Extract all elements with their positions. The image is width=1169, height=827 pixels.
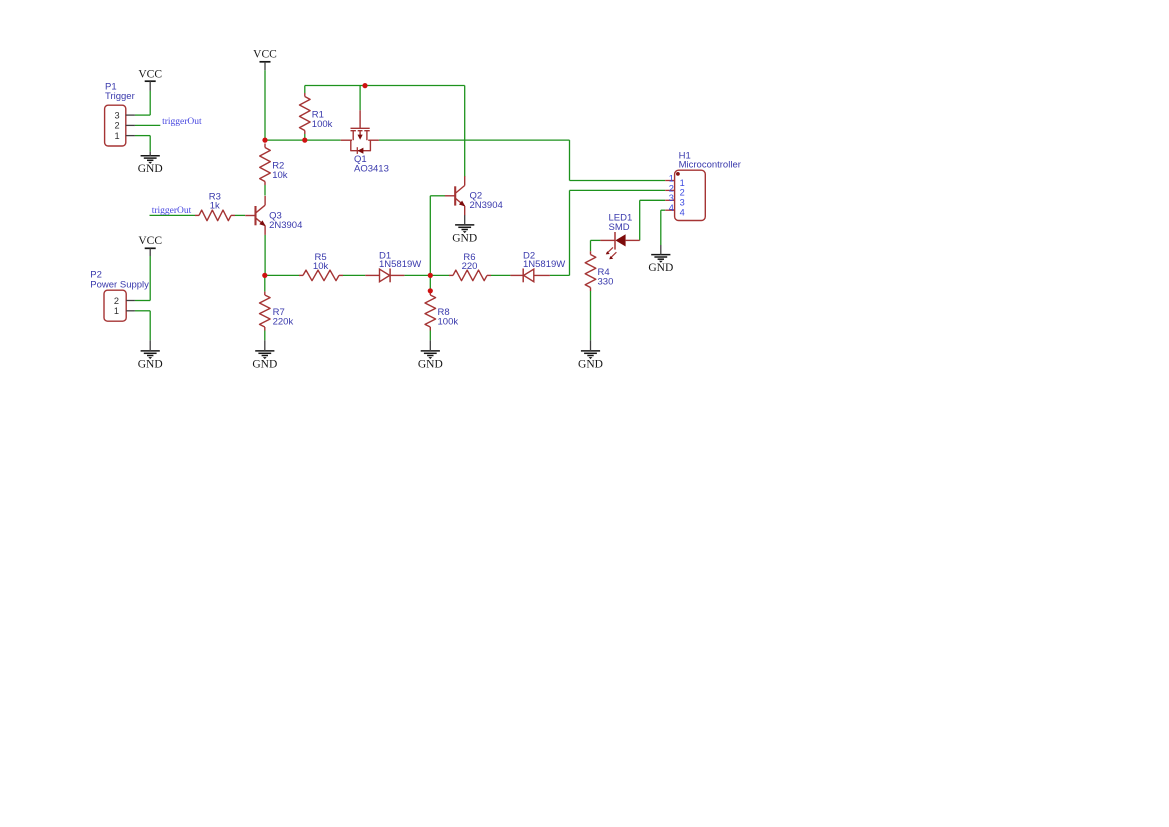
- wire R8 bottom to ground: [429, 331, 431, 341]
- svg-text:2N3904: 2N3904: [470, 200, 503, 211]
- svg-text:1: 1: [669, 173, 674, 183]
- svg-text:1N5819W: 1N5819W: [523, 259, 565, 270]
- svg-text:1N5819W: 1N5819W: [379, 259, 421, 270]
- wire Q3 emitter down to node: [264, 235, 266, 276]
- junction node (430.3,290.8): [428, 288, 433, 293]
- junction node (265,140): [262, 138, 267, 143]
- svg-text:Power Supply: Power Supply: [90, 279, 149, 290]
- wire node down to R8: [429, 275, 431, 291]
- svg-text:SMD: SMD: [609, 222, 630, 233]
- svg-text:3: 3: [669, 193, 674, 203]
- wire P2 pin1 to ground: [135, 311, 150, 340]
- wire P1 pin3 to VCC: [135, 91, 150, 115]
- connector P1 Trigger: [105, 81, 135, 146]
- svg-text:4: 4: [680, 208, 685, 218]
- power symbol VCC (P2): [138, 235, 162, 256]
- svg-text:100k: 100k: [438, 317, 459, 328]
- svg-text:10k: 10k: [272, 170, 288, 181]
- wire H1 pin2 column down to D2: [569, 190, 571, 275]
- svg-text:220: 220: [462, 261, 478, 272]
- wire R5 to D1: [343, 274, 365, 276]
- junction node Q1 gate / top rail: [362, 83, 367, 88]
- wire to H1 pin 3: [640, 199, 666, 201]
- power symbol VCC (net to R1/R2 rail): [253, 48, 277, 70]
- svg-text:GND: GND: [418, 358, 443, 370]
- wire R2 to Q3 collector: [264, 185, 266, 196]
- wire R7 top: [264, 275, 266, 291]
- wire top rail y=85.5: [305, 85, 465, 87]
- wire D1 to node: [404, 274, 430, 276]
- wire VCC rail down to node at y=140: [264, 70, 266, 140]
- resistor R1 100k: [300, 93, 333, 134]
- ground (R8): [418, 340, 443, 370]
- svg-text:GND: GND: [252, 358, 277, 370]
- ground (P1): [138, 151, 163, 175]
- wire R1 bottom stub: [304, 134, 306, 140]
- svg-text:AO3413: AO3413: [354, 163, 389, 174]
- wire Q2 base column down to node: [429, 196, 431, 276]
- diode D2 1N5819W: [510, 250, 565, 282]
- wire Q1 gate stub: [359, 86, 361, 111]
- net label triggerOut (R3 input): [152, 206, 192, 216]
- resistor R5 10k: [299, 252, 343, 281]
- diode D1 1N5819W: [365, 250, 421, 282]
- LED LED1 SMD: [600, 213, 639, 260]
- svg-text:1: 1: [114, 131, 119, 141]
- wire Q2 base left: [430, 195, 445, 197]
- wire R3 to Q3 base: [235, 214, 245, 216]
- wire Q1 source to corner x=569.5: [379, 139, 570, 141]
- svg-text:triggerOut: triggerOut: [162, 117, 202, 127]
- resistor R2 10k: [260, 144, 288, 186]
- junction node (264.8,275.4): [262, 273, 267, 278]
- svg-text:4: 4: [669, 203, 674, 213]
- connector H1 Microcontroller: [665, 151, 741, 221]
- resistor R3 1k: [195, 191, 235, 220]
- svg-text:2: 2: [680, 188, 685, 198]
- wire R6 to D2: [491, 274, 510, 276]
- svg-text:Trigger: Trigger: [105, 91, 135, 102]
- svg-text:220k: 220k: [273, 317, 294, 328]
- wire to H1 pin 2: [570, 189, 666, 191]
- wire node to R6: [430, 274, 449, 276]
- wire R4 bottom to ground: [590, 291, 592, 340]
- svg-text:2: 2: [114, 296, 119, 306]
- svg-text:GND: GND: [452, 232, 477, 244]
- wire H1 pin3 column down to LED1: [639, 200, 641, 240]
- wire node to R5: [265, 274, 299, 276]
- transistor Q1 AO3413 P-MOSFET: [341, 110, 389, 174]
- wire node(265,140) to Q1 drain: [265, 139, 341, 141]
- resistor R7 220k: [260, 292, 294, 331]
- svg-text:GND: GND: [138, 163, 163, 175]
- svg-text:2N3904: 2N3904: [269, 220, 302, 231]
- resistor R4 330: [585, 251, 613, 291]
- svg-text:1: 1: [680, 178, 685, 188]
- resistor R6 220: [449, 252, 491, 281]
- power symbol VCC (P1): [138, 69, 162, 91]
- svg-text:1k: 1k: [210, 201, 220, 212]
- svg-text:GND: GND: [648, 262, 673, 274]
- wire triggerOut to R3: [150, 214, 196, 216]
- svg-text:2: 2: [114, 121, 119, 131]
- wire to H1 pin 1: [570, 180, 666, 182]
- svg-text:330: 330: [598, 277, 614, 288]
- junction node (430.3,275.4): [428, 273, 433, 278]
- ground (P2): [138, 340, 163, 370]
- svg-text:3: 3: [114, 110, 119, 120]
- wire corner down to H1 pin1 row: [569, 140, 571, 180]
- connector P2 Power Supply: [90, 270, 149, 322]
- wire Q2 collector to top rail: [464, 86, 466, 177]
- svg-text:2: 2: [669, 183, 674, 193]
- ground (Q2 emitter): [452, 215, 477, 244]
- svg-text:GND: GND: [138, 358, 163, 370]
- svg-text:1: 1: [114, 306, 119, 316]
- svg-text:VCC: VCC: [253, 48, 277, 60]
- ground (R4): [578, 340, 603, 370]
- svg-text:100k: 100k: [312, 119, 333, 130]
- net label triggerOut (P1 pin2): [162, 117, 202, 127]
- junction node (304.8,140): [302, 138, 307, 143]
- wire P2 pin2 to VCC: [135, 256, 150, 301]
- svg-text:Microcontroller: Microcontroller: [679, 160, 741, 171]
- svg-text:VCC: VCC: [138, 69, 162, 81]
- svg-text:GND: GND: [578, 358, 603, 370]
- wire R1 top stub: [304, 86, 306, 94]
- svg-text:triggerOut: triggerOut: [152, 206, 192, 216]
- wire P1 pin2 triggerOut stub: [135, 124, 160, 126]
- wire P1 pin1 to ground: [135, 136, 150, 152]
- wire H1 pin 4 to ground: [661, 210, 665, 245]
- ground (R7): [252, 340, 277, 370]
- resistor R8 100k: [425, 292, 458, 331]
- wire D2 to corner: [550, 274, 570, 276]
- wire LED1 anode corner to R4: [591, 240, 601, 251]
- svg-text:10k: 10k: [313, 261, 329, 272]
- transistor Q3 2N3904: [245, 196, 302, 235]
- svg-text:VCC: VCC: [138, 235, 162, 247]
- transistor Q2 2N3904: [445, 176, 503, 215]
- ground (H1 pin 4): [648, 245, 673, 274]
- svg-text:3: 3: [680, 198, 685, 208]
- wire R7 bottom to ground: [264, 331, 266, 341]
